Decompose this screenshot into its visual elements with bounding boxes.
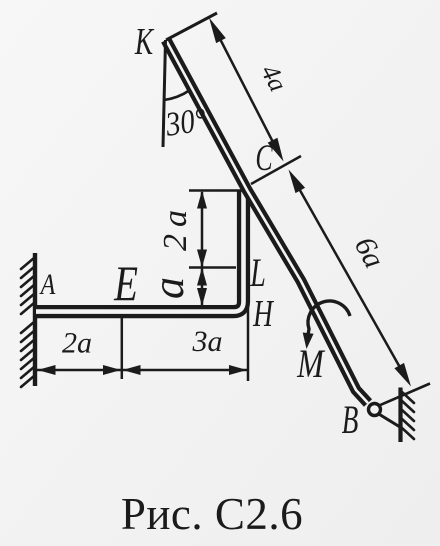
extension tick at C (251, 156, 301, 184)
svg-text:2a: 2a (62, 327, 92, 360)
svg-text:C: C (255, 138, 273, 179)
svg-text:A: A (39, 267, 56, 300)
dimension line 4a (209, 18, 284, 162)
svg-text:M: M (296, 342, 325, 386)
svg-text:3a: 3a (192, 325, 223, 358)
bent bar A-E-H-L tube (36, 190, 244, 312)
extension line at K (166, 13, 217, 40)
svg-text:E: E (113, 255, 138, 311)
vertical reference line below K (163, 40, 166, 147)
wall hatching at B (402, 392, 414, 439)
dimension line 6a (289, 170, 412, 387)
30 degree arc (164, 90, 190, 100)
inclined bar K-C-B (166, 40, 368, 403)
moment arrow M (303, 301, 350, 349)
svg-text:a: a (144, 277, 193, 299)
support bracket lower link at B (378, 414, 400, 428)
svg-text:Рис. С2.6: Рис. С2.6 (121, 489, 303, 539)
svg-text:K: K (134, 21, 155, 63)
svg-text:H: H (252, 293, 274, 335)
svg-text:30°: 30° (162, 100, 209, 143)
bottom dimension 2a and 3a (37, 271, 248, 381)
wall hatching at A (21, 258, 34, 387)
vertical dimension 2a and a (189, 191, 242, 307)
svg-text:B: B (342, 399, 359, 442)
svg-text:L: L (249, 251, 265, 295)
wall line at B (398, 388, 402, 443)
wall line at A (33, 253, 37, 386)
pin at B (369, 404, 381, 416)
svg-text:2a: 2a (157, 203, 194, 251)
extension line at B (378, 384, 430, 407)
